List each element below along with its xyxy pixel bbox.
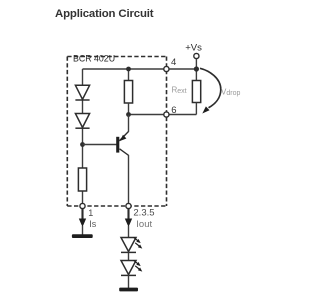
node base junction — [80, 142, 85, 147]
dashed package outline BCR 402U — [67, 57, 166, 207]
node Vs junction — [194, 66, 199, 71]
svg-text:BCR 402U: BCR 402U — [73, 54, 115, 64]
arrow Vdrop arc — [200, 68, 221, 108]
wire Rext bottom — [195, 103, 197, 115]
wire LED2 to ground — [128, 275, 130, 288]
arrow Iout — [127, 209, 129, 220]
wire top rail (pin4 to +Vs and internal) — [83, 68, 197, 70]
wire emitter vertical — [128, 115, 130, 132]
node top of R2 — [126, 67, 131, 72]
ground left — [72, 234, 93, 238]
diode D1 — [75, 85, 89, 100]
svg-text:2.3.5: 2.3.5 — [133, 208, 154, 219]
resistor R2 (middle internal) — [124, 81, 132, 104]
svg-text:Rext: Rext — [172, 86, 187, 96]
wire base — [83, 144, 117, 146]
svg-text:Vdrop: Vdrop — [221, 88, 240, 98]
pin 4 — [164, 66, 169, 71]
LED D3 — [121, 238, 136, 253]
svg-text:+Vs: +Vs — [185, 43, 202, 54]
wire Vs drop — [195, 59, 197, 81]
pin 6 — [164, 112, 169, 117]
resistor Rext — [192, 81, 200, 103]
node bottom of R2 — [126, 112, 131, 117]
LED D4 light arrows — [134, 260, 143, 271]
resistor R1 (left internal) — [78, 168, 86, 191]
wire left branch vertical — [82, 69, 84, 206]
diode D2 — [75, 114, 89, 129]
wire LED1 to LED2 — [128, 252, 130, 260]
wire pin6 rail — [129, 114, 197, 116]
pin 1 — [80, 203, 85, 208]
transistor Q1 (PNP) — [116, 132, 128, 156]
arrow Is — [81, 209, 83, 220]
pin 2.3.5 — [126, 203, 131, 208]
svg-text:Is: Is — [89, 219, 97, 229]
LED D4 — [121, 261, 136, 276]
svg-text:Application Circuit: Application Circuit — [55, 8, 154, 20]
wire resistor to pin6 rail — [128, 103, 130, 115]
wire collector vertical — [128, 155, 130, 206]
wire middle branch upper — [128, 69, 130, 81]
LED D3 light arrows — [134, 237, 143, 248]
svg-text:6: 6 — [171, 105, 176, 116]
ground right — [119, 288, 138, 292]
svg-text:Iout: Iout — [136, 219, 152, 230]
svg-text:1: 1 — [88, 208, 93, 218]
svg-text:4: 4 — [171, 57, 176, 68]
